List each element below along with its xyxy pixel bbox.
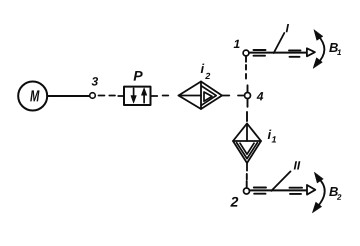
shaft II line bbox=[250, 189, 307, 191]
wire node 3 to P (dashed) bbox=[99, 95, 124, 98]
coupling P bbox=[124, 71, 151, 105]
wire i2 to node 4 (dash) bbox=[238, 95, 243, 97]
bearing triangle shaft I bbox=[307, 48, 315, 56]
label B2 bbox=[329, 187, 341, 200]
wire motor to node 3 bbox=[47, 95, 89, 97]
wire P to i2 (dashed) bbox=[152, 95, 169, 98]
gear i1 bbox=[233, 124, 276, 171]
spline marks right of shaft II bbox=[290, 188, 303, 194]
rotation arrow B1 bbox=[313, 30, 324, 69]
wire node 1 to node 4 (dashed) bbox=[245, 56, 247, 78]
motor M bbox=[18, 82, 47, 111]
node 3 bbox=[90, 77, 98, 98]
leader line II bbox=[271, 171, 290, 190]
spline marks left of shaft II bbox=[254, 188, 266, 194]
bearing triangle shaft II bbox=[307, 185, 315, 195]
rotation arrow B2 bbox=[312, 172, 324, 212]
leader line I bbox=[274, 33, 285, 53]
gear i2 bbox=[179, 64, 230, 109]
node 1 bbox=[234, 40, 249, 56]
spline marks left of shaft I bbox=[254, 50, 266, 56]
P down arrow bbox=[133, 88, 135, 97]
P up arrow bbox=[143, 94, 145, 103]
spline marks right of shaft I bbox=[289, 50, 301, 56]
wire node 4 to i1 (dash) bbox=[246, 112, 248, 121]
shaft I line bbox=[249, 52, 307, 54]
wire i1 to node 2 (dash) bbox=[246, 174, 248, 187]
label II bbox=[294, 161, 301, 169]
label B1 bbox=[329, 43, 341, 55]
node 2 bbox=[230, 188, 249, 207]
label I bbox=[286, 24, 289, 32]
node 4 bbox=[245, 85, 264, 107]
